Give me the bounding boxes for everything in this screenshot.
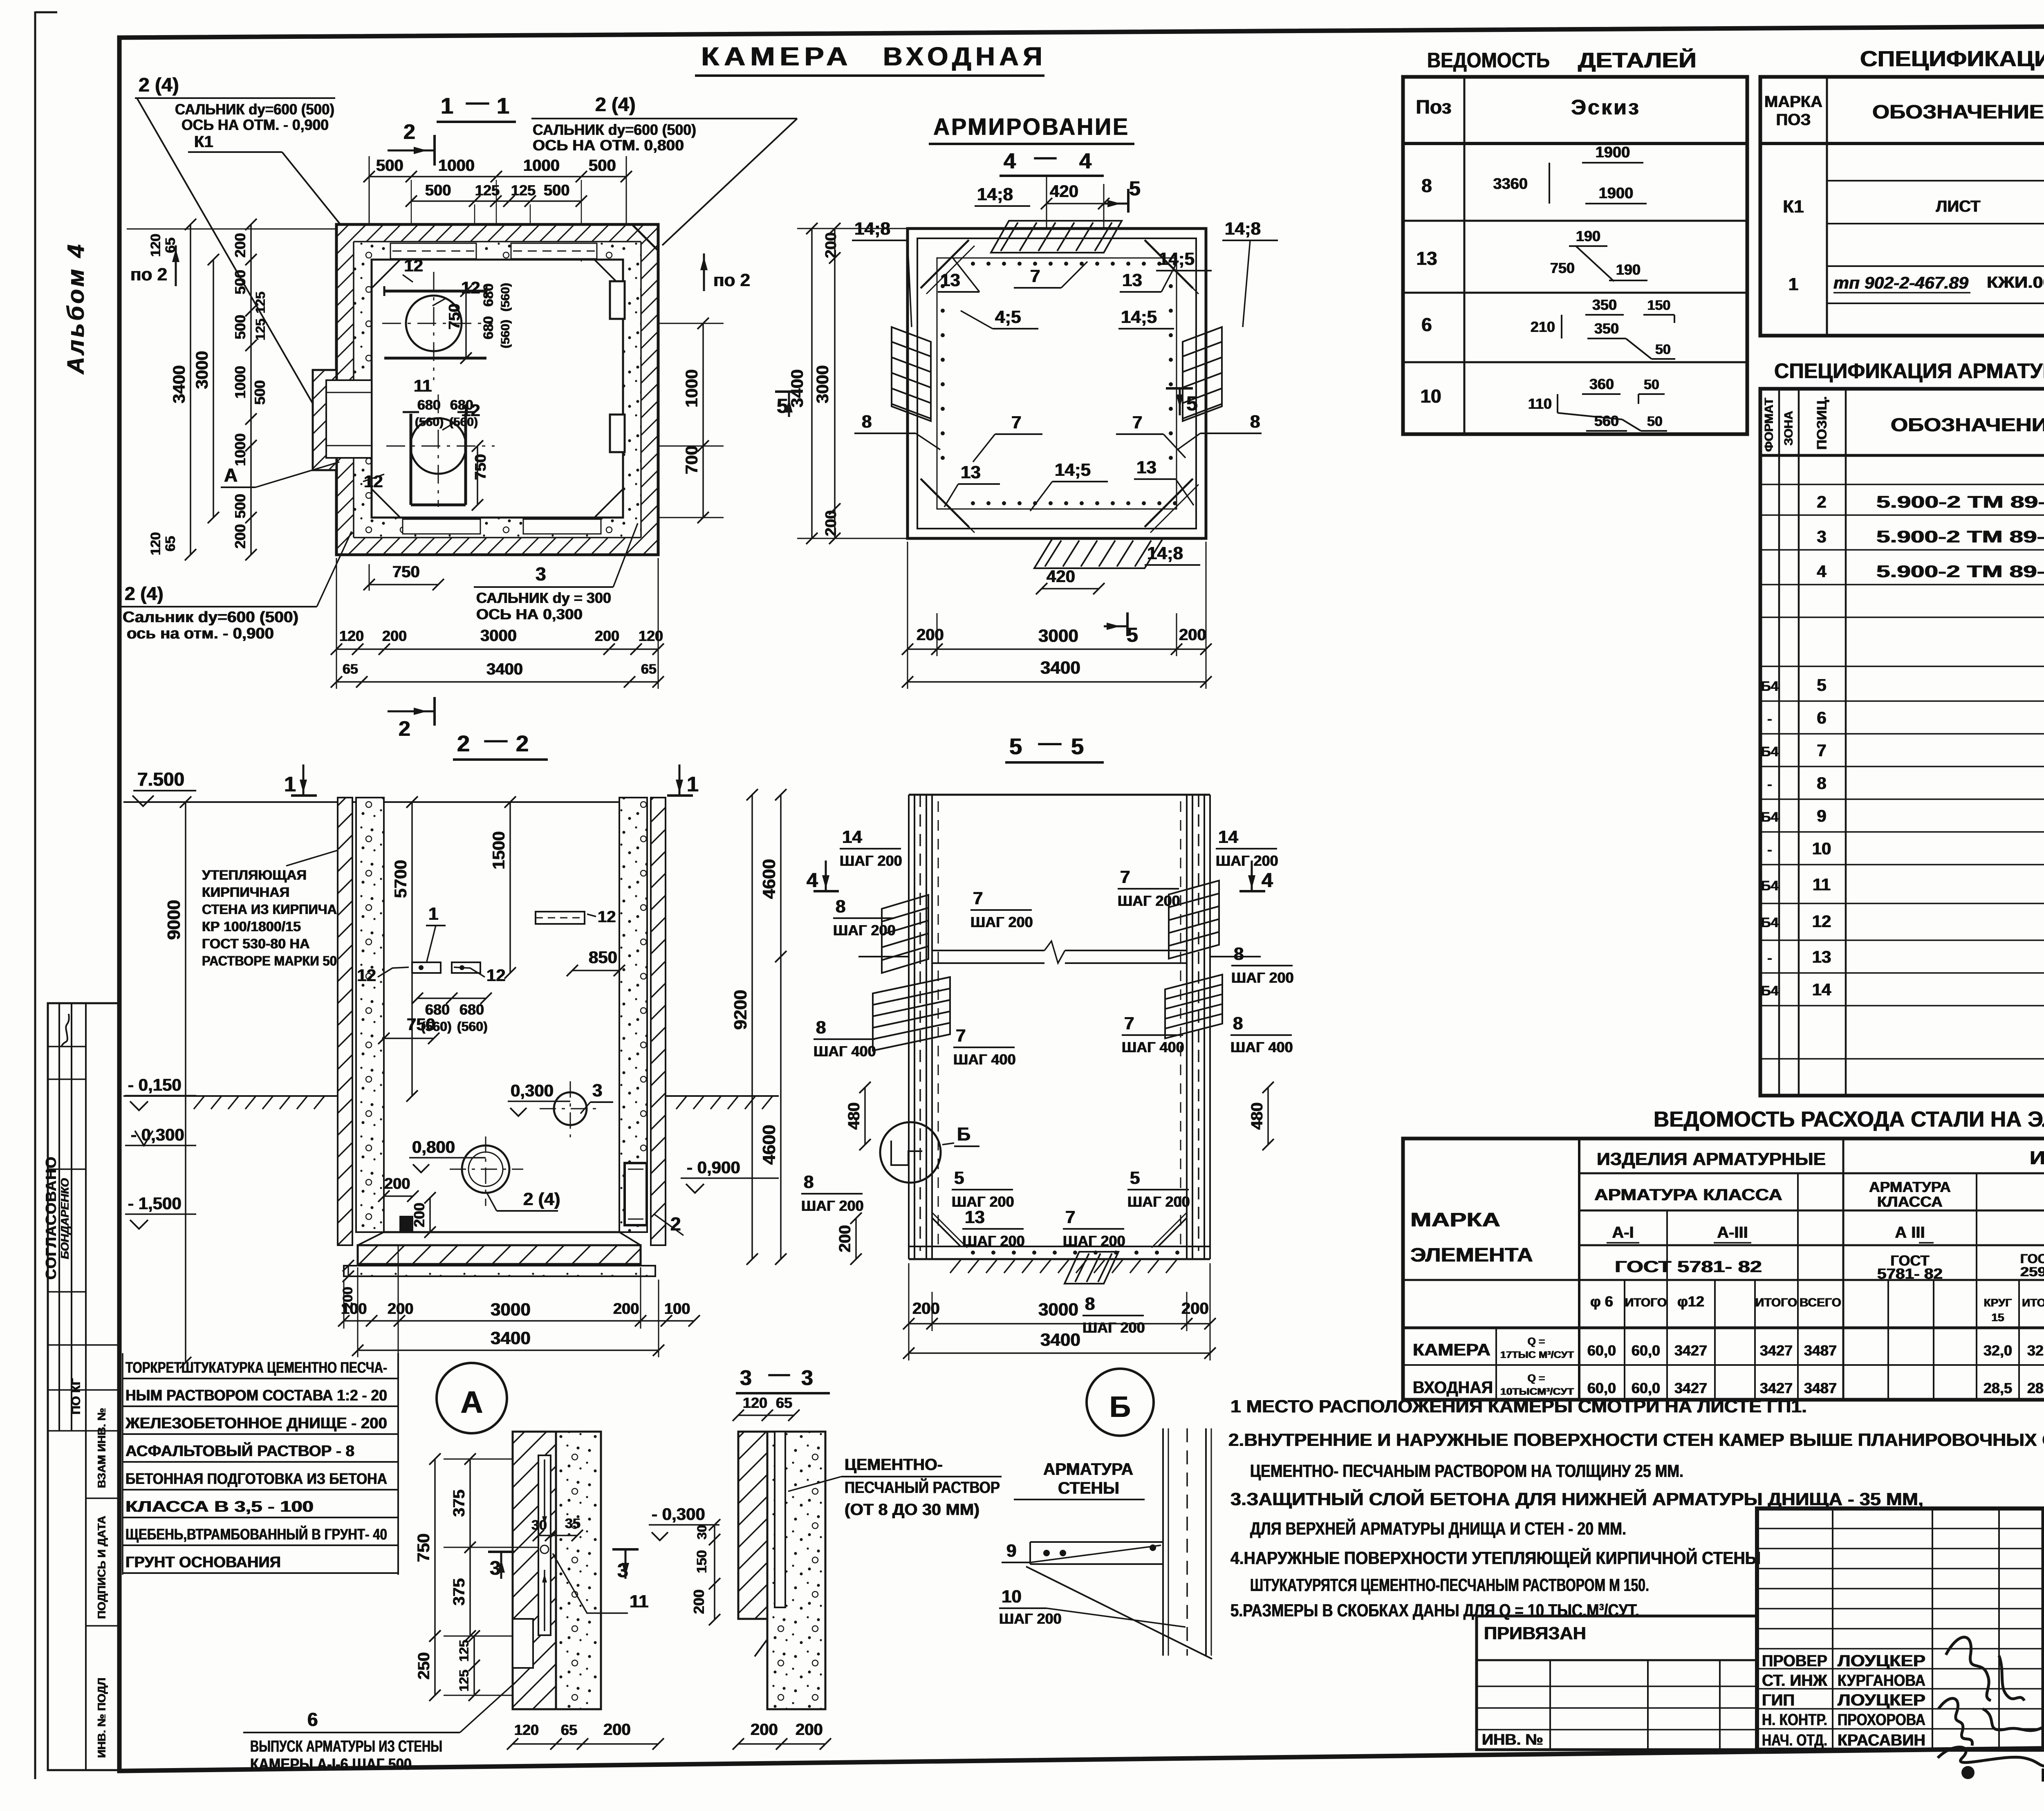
svg-text:6: 6: [1817, 708, 1826, 727]
svg-text:375: 375: [450, 1490, 468, 1517]
svg-text:ЛОУЦКЕР: ЛОУЦКЕР: [1838, 1691, 1925, 1709]
svg-text:13: 13: [961, 462, 981, 482]
svg-text:200: 200: [595, 628, 619, 644]
svg-text:φ12: φ12: [1677, 1293, 1704, 1310]
svg-text:15: 15: [1991, 1311, 2004, 1324]
svg-text:2 (4): 2 (4): [523, 1189, 560, 1209]
svg-text:- 0,300: - 0,300: [652, 1504, 705, 1524]
svg-text:110: 110: [1528, 395, 1552, 412]
svg-text:13: 13: [965, 1207, 985, 1227]
svg-text:УТЕПЛЯЮЩАЯ: УТЕПЛЯЮЩАЯ: [202, 867, 307, 883]
svg-text:ПОДПИСЬ И ДАТА: ПОДПИСЬ И ДАТА: [95, 1516, 108, 1619]
svg-text:10: 10: [1812, 839, 1831, 858]
svg-text:ОБОЗНАЧЕНИЕ: ОБОЗНАЧЕНИЕ: [1872, 101, 2044, 123]
svg-text:ИЗДЕЛИЯ АРМАТУРНЫЕ: ИЗДЕЛИЯ АРМАТУРНЫЕ: [1597, 1149, 1826, 1169]
svg-text:5: 5: [777, 394, 788, 417]
svg-text:11: 11: [1813, 875, 1831, 894]
svg-text:Q =: Q =: [1528, 1372, 1545, 1384]
svg-text:4.НАРУЖНЫЕ ПОВЕРХНОСТИ УТЕПЛ: 4.НАРУЖНЫЕ ПОВЕРХНОСТИ УТЕПЛЯЮЩЕЙ КИРПИЧ…: [1230, 1547, 1761, 1568]
svg-text:Б4: Б4: [1761, 983, 1778, 999]
svg-text:125: 125: [253, 318, 268, 340]
svg-text:φ 6: φ 6: [1590, 1293, 1613, 1310]
svg-text:5700: 5700: [391, 860, 410, 898]
svg-text:1000: 1000: [682, 369, 701, 407]
svg-text:14;8: 14;8: [1147, 543, 1183, 563]
svg-text:КЛАССА: КЛАССА: [1877, 1193, 1943, 1210]
svg-text:30: 30: [695, 1525, 709, 1540]
svg-text:120: 120: [148, 234, 164, 257]
svg-text:0,300: 0,300: [511, 1081, 554, 1100]
svg-text:200: 200: [690, 1589, 707, 1614]
svg-text:1900: 1900: [1596, 144, 1630, 161]
svg-text:Б: Б: [1109, 1391, 1131, 1423]
svg-text:3400: 3400: [1040, 1330, 1080, 1350]
svg-text:ВЗАМ ИНВ. №: ВЗАМ ИНВ. №: [95, 1408, 108, 1488]
svg-text:1900: 1900: [1599, 185, 1634, 202]
svg-text:190: 190: [1616, 261, 1641, 278]
svg-text:60,0: 60,0: [1587, 1380, 1616, 1396]
svg-text:120: 120: [743, 1394, 767, 1411]
svg-text:200: 200: [384, 1175, 410, 1192]
svg-text:125: 125: [253, 291, 268, 313]
svg-text:7: 7: [973, 888, 983, 908]
svg-text:680: 680: [417, 397, 441, 413]
svg-text:750: 750: [446, 304, 463, 329]
svg-text:200: 200: [912, 1300, 940, 1318]
svg-text:13: 13: [940, 270, 960, 290]
svg-text:ЖЕЛЕЗОБЕТОННОЕ ДНИЩЕ - 200: ЖЕЛЕЗОБЕТОННОЕ ДНИЩЕ - 200: [125, 1415, 387, 1432]
svg-text:9000: 9000: [164, 900, 184, 940]
svg-text:1000: 1000: [232, 366, 249, 399]
svg-text:375: 375: [450, 1578, 468, 1606]
svg-text:750: 750: [1550, 260, 1575, 276]
left margin stamp column: [48, 1003, 120, 1770]
detail 3-3 wall strips: [738, 1432, 767, 1619]
svg-text:50: 50: [1655, 342, 1671, 357]
svg-text:тп 902-2-467.89: тп 902-2-467.89: [1833, 273, 1969, 292]
embedded plate detail (pos 1,12) in 2-2: [412, 962, 441, 973]
svg-text:(560): (560): [421, 1019, 452, 1034]
svg-text:ШАГ 200: ШАГ 200: [999, 1610, 1062, 1627]
svg-text:- 1,500: - 1,500: [128, 1194, 182, 1213]
svg-text:11: 11: [630, 1591, 649, 1612]
svg-text:200: 200: [751, 1721, 778, 1739]
svg-text:65: 65: [641, 661, 657, 677]
svg-text:(560): (560): [415, 415, 444, 429]
5-5 bottom slab: [909, 1246, 1210, 1247]
svg-text:1500: 1500: [489, 831, 508, 869]
svg-text:ось на отм. - 0,900: ось на отм. - 0,900: [127, 625, 274, 642]
svg-text:КРАСАВИН: КРАСАВИН: [1838, 1731, 1925, 1749]
Б detail circle on 5-5: [880, 1122, 941, 1183]
svg-text:ЦЕМЕНТНО-: ЦЕМЕНТНО-: [845, 1456, 943, 1474]
hatch flag bottom (pos 14;8): [1034, 539, 1163, 568]
svg-text:5: 5: [1071, 733, 1084, 759]
ground lines and levels: [123, 1095, 338, 1097]
svg-text:60,0: 60,0: [1587, 1342, 1616, 1359]
svg-text:ИНВ. № ПОДЛ: ИНВ. № ПОДЛ: [95, 1678, 108, 1758]
svg-text:8: 8: [1234, 944, 1244, 964]
5-5 wall lines: [908, 795, 910, 1259]
svg-text:Б4: Б4: [1761, 809, 1778, 825]
svg-text:3.ЗАЩИТНЫЙ СЛОЙ БЕТОНА ДЛЯ: 3.ЗАЩИТНЫЙ СЛОЙ БЕТОНА ДЛЯ НИЖНЕЙ АРМАТУ…: [1230, 1488, 1923, 1509]
svg-text:ПРОВЕР: ПРОВЕР: [1762, 1652, 1827, 1670]
hatch flag right (pos 14;8): [1183, 327, 1222, 421]
svg-text:850: 850: [589, 948, 617, 967]
svg-text:7.500: 7.500: [137, 769, 184, 790]
svg-text:САЛЬНИК dy = 300: САЛЬНИК dy = 300: [476, 589, 611, 606]
svg-text:- 0,150: - 0,150: [128, 1075, 182, 1094]
svg-text:ПЕСЧАНЫЙ РАСТВОР: ПЕСЧАНЫЙ РАСТВОР: [845, 1478, 1000, 1497]
svg-text:14;8: 14;8: [977, 184, 1013, 204]
svg-text:5: 5: [954, 1168, 964, 1188]
svg-text:200: 200: [388, 1300, 413, 1318]
svg-text:200: 200: [382, 628, 407, 644]
svg-text:65: 65: [163, 536, 178, 551]
svg-text:9200: 9200: [731, 990, 751, 1030]
svg-text:3: 3: [801, 1366, 813, 1390]
svg-text:3427: 3427: [1674, 1342, 1707, 1359]
svg-text:200: 200: [836, 1225, 854, 1253]
svg-text:(560): (560): [499, 320, 512, 348]
svg-text:Б: Б: [957, 1123, 970, 1145]
svg-text:ОСЬ НА ОТМ. - 0,900: ОСЬ НА ОТМ. - 0,900: [182, 117, 329, 133]
svg-text:200: 200: [1179, 626, 1206, 644]
svg-text:ЭЛЕМЕНТА: ЭЛЕМЕНТА: [1410, 1244, 1533, 1266]
svg-text:ГИП: ГИП: [1762, 1691, 1795, 1709]
svg-text:4: 4: [1004, 149, 1016, 173]
svg-text:-: -: [1767, 777, 1772, 792]
svg-text:ШТУКАТУРЯТСЯ ЦЕМЕНТНО-ПЕСЧАНЫ: ШТУКАТУРЯТСЯ ЦЕМЕНТНО-ПЕСЧАНЫМ РАСТВОРОМ…: [1250, 1575, 1649, 1595]
svg-text:0,800: 0,800: [412, 1137, 455, 1157]
svg-text:5.РАЗМЕРЫ В СКОБКАХ ДАНЫ Д: 5.РАЗМЕРЫ В СКОБКАХ ДАНЫ ДЛЯ Q = 10 ТЫС.…: [1230, 1600, 1639, 1620]
svg-text:Q =: Q =: [1528, 1335, 1545, 1347]
svg-text:60,0: 60,0: [1632, 1380, 1660, 1396]
svg-text:ГОСТ 5781- 82: ГОСТ 5781- 82: [1615, 1258, 1762, 1276]
svg-text:А-I: А-I: [1612, 1224, 1634, 1242]
svg-text:4: 4: [807, 869, 818, 892]
svg-text:35: 35: [565, 1516, 580, 1531]
svg-text:ВХОДНАЯ: ВХОДНАЯ: [1413, 1378, 1493, 1397]
svg-text:8: 8: [1817, 773, 1826, 793]
svg-text:500: 500: [251, 380, 268, 405]
svg-text:КР 100/1800/15: КР 100/1800/15: [202, 919, 301, 935]
svg-text:А III: А III: [1895, 1224, 1925, 1242]
detail Б drawing: [1162, 1428, 1164, 1656]
svg-text:(560): (560): [449, 415, 478, 429]
svg-text:7: 7: [1011, 412, 1021, 433]
svg-text:500: 500: [232, 315, 249, 339]
svg-text:420: 420: [1047, 567, 1075, 586]
svg-text:200: 200: [603, 1721, 631, 1739]
svg-text:—: —: [1034, 145, 1056, 169]
title block stamp: [1757, 1508, 2044, 1750]
svg-text:1: 1: [441, 93, 453, 119]
svg-text:ДЛЯ ВЕРХНЕЙ АРМАТУРЫ ДНИЩА: ДЛЯ ВЕРХНЕЙ АРМАТУРЫ ДНИЩА И СТЕН - 20 М…: [1250, 1518, 1626, 1539]
svg-text:САЛЬНИК dy=600 (500): САЛЬНИК dy=600 (500): [533, 121, 696, 138]
svg-text:ОСЬ НА ОТМ. 0,800: ОСЬ НА ОТМ. 0,800: [533, 137, 684, 154]
svg-text:Н. КОНТР.: Н. КОНТР.: [1762, 1711, 1827, 1729]
svg-text:8: 8: [1250, 412, 1260, 432]
svg-text:12: 12: [461, 278, 480, 297]
svg-text:Б4: Б4: [1761, 878, 1778, 894]
svg-text:350: 350: [1592, 296, 1617, 313]
svg-text:ШАГ 200: ШАГ 200: [970, 914, 1033, 930]
svg-text:1: 1: [428, 904, 438, 924]
svg-text:200: 200: [613, 1300, 639, 1318]
svg-text:СТЕНА ИЗ КИРПИЧА: СТЕНА ИЗ КИРПИЧА: [202, 902, 337, 917]
svg-text:2 (4): 2 (4): [139, 74, 179, 96]
svg-text:ИНВ. №: ИНВ. №: [1482, 1731, 1543, 1748]
svg-text:ЦЕМЕНТНО- ПЕСЧАНЫМ РАСТВОРОМ: ЦЕМЕНТНО- ПЕСЧАНЫМ РАСТВОРОМ НА ТОЛЩИНУ …: [1250, 1461, 1683, 1481]
svg-text:200: 200: [232, 524, 249, 549]
svg-text:по 2: по 2: [130, 264, 167, 285]
svg-text:200: 200: [823, 510, 840, 536]
svg-text:КАМЕРА: КАМЕРА: [1413, 1340, 1490, 1359]
svg-text:3400: 3400: [169, 365, 188, 403]
svg-text:14;5: 14;5: [1121, 307, 1157, 327]
svg-text:3400: 3400: [1040, 658, 1080, 678]
svg-text:500: 500: [376, 157, 403, 175]
svg-text:АСФАЛЬТОВЫЙ РАСТВОР - 8: АСФАЛЬТОВЫЙ РАСТВОР - 8: [126, 1441, 354, 1460]
svg-text:8: 8: [1085, 1294, 1095, 1314]
svg-text:3360: 3360: [1493, 175, 1528, 193]
svg-text:14: 14: [842, 827, 862, 847]
svg-text:8: 8: [862, 412, 872, 432]
svg-text:2: 2: [516, 731, 529, 756]
signatures (squiggles): [1946, 1637, 2024, 1701]
svg-text:500: 500: [425, 182, 451, 199]
svg-text:12: 12: [486, 966, 506, 985]
svg-text:2: 2: [403, 120, 415, 144]
svg-text:(ОТ 8 ДО 30 ММ): (ОТ 8 ДО 30 ММ): [845, 1501, 979, 1519]
svg-text:250: 250: [415, 1652, 433, 1680]
hatch flag top (pos 14;8): [991, 221, 1122, 253]
svg-text:8: 8: [804, 1172, 814, 1192]
svg-text:-: -: [1767, 711, 1772, 727]
svg-text:АРМИРОВАНИЕ: АРМИРОВАНИЕ: [933, 114, 1130, 140]
svg-text:4;5: 4;5: [995, 307, 1021, 327]
svg-text:—: —: [1038, 729, 1061, 755]
svg-text:13: 13: [1812, 947, 1831, 966]
svg-text:8: 8: [816, 1018, 826, 1038]
svg-text:А: А: [224, 464, 238, 486]
сальник пос.2 in right wall: [625, 1163, 647, 1225]
svg-text:12: 12: [1812, 912, 1831, 931]
svg-text:3000: 3000: [813, 365, 832, 403]
svg-text:680: 680: [481, 283, 496, 307]
svg-text:К1: К1: [1783, 197, 1804, 217]
svg-text:12: 12: [364, 472, 383, 491]
svg-text:10: 10: [1420, 386, 1441, 407]
svg-text:ГОСТ 530-80 НА: ГОСТ 530-80 НА: [202, 936, 310, 952]
svg-text:7: 7: [956, 1026, 966, 1046]
svg-text:КРУГ: КРУГ: [1984, 1296, 2012, 1309]
svg-text:Б4: Б4: [1761, 915, 1778, 930]
svg-text:100: 100: [664, 1300, 690, 1318]
svg-text:210: 210: [1531, 318, 1555, 335]
svg-text:ВСЕГО: ВСЕГО: [1800, 1296, 1841, 1309]
dots along bottom slab: [971, 1251, 975, 1255]
svg-text:Поз: Поз: [1416, 96, 1451, 118]
svg-text:ГОСТ: ГОСТ: [2020, 1251, 2044, 1266]
svg-text:150: 150: [694, 1550, 710, 1573]
svg-text:5.900-2 ТМ 89-10: 5.900-2 ТМ 89-10: [1876, 562, 2044, 581]
svg-text:—: —: [484, 726, 507, 752]
svg-text:1000: 1000: [523, 157, 560, 175]
svg-text:8: 8: [1233, 1013, 1243, 1033]
svg-text:3400: 3400: [486, 660, 523, 678]
svg-text:БЕТОННАЯ ПОДГОТОВКА ИЗ БЕТОНА: БЕТОННАЯ ПОДГОТОВКА ИЗ БЕТОНА: [126, 1470, 387, 1488]
svg-text:5: 5: [1129, 177, 1141, 200]
svg-text:7: 7: [1030, 266, 1040, 286]
svg-text:ФОРМАТ: ФОРМАТ: [1762, 398, 1776, 452]
svg-text:3000: 3000: [480, 627, 517, 645]
svg-text:2590-71: 2590-71: [2020, 1264, 2044, 1279]
svg-text:КАМЕРА: КАМЕРА: [701, 42, 852, 71]
detail circle А: [437, 1363, 507, 1433]
svg-text:420: 420: [1050, 182, 1078, 201]
svg-text:3: 3: [592, 1080, 602, 1100]
svg-text:350: 350: [1594, 320, 1619, 337]
embedded angle top right of 2-2: [536, 912, 585, 924]
svg-text:3000: 3000: [1038, 626, 1078, 646]
svg-text:120: 120: [148, 532, 164, 556]
svg-text:17ТЫС М³/СУТ: 17ТЫС М³/СУТ: [1500, 1349, 1574, 1360]
svg-text:Эскиз: Эскиз: [1571, 96, 1641, 119]
left scan edge line: [34, 11, 36, 1779]
svg-text:ОБОЗНАЧЕНИЕ: ОБОЗНАЧЕНИЕ: [1891, 414, 2044, 435]
svg-text:3427: 3427: [1760, 1342, 1793, 1359]
pipe circle 1 (сальник верхний): [406, 296, 462, 351]
svg-text:360: 360: [1589, 376, 1614, 392]
svg-text:—: —: [466, 89, 489, 114]
svg-text:4: 4: [1262, 869, 1273, 892]
svg-text:Б4: Б4: [1761, 679, 1778, 694]
svg-text:КЖИ.00.100: КЖИ.00.100: [1987, 273, 2044, 291]
svg-text:9: 9: [1817, 806, 1826, 825]
svg-text:ЛИСТ: ЛИСТ: [1936, 197, 1980, 215]
svg-text:ШАГ 200: ШАГ 200: [840, 852, 902, 869]
svg-text:680: 680: [450, 397, 473, 413]
svg-text:7: 7: [1817, 741, 1826, 760]
svg-text:9: 9: [1006, 1541, 1016, 1561]
2-2 bottom slab: [384, 1231, 619, 1233]
svg-text:ШАГ 200: ШАГ 200: [962, 1233, 1025, 1249]
svg-text:КОПИРОВАЛ ЕРЕМЧЕНКО: КОПИРОВАЛ ЕРЕМЧЕНКО: [2041, 1764, 2044, 1786]
svg-text:МАРКА: МАРКА: [1410, 1209, 1500, 1231]
svg-text:5: 5: [1130, 1168, 1140, 1188]
wall band of chamber 1-1: [336, 224, 658, 242]
svg-text:ИЗДЕЛИЯ ЗАКЛАДНЫЕ: ИЗДЕЛИЯ ЗАКЛАДНЫЕ: [2030, 1147, 2044, 1168]
svg-text:ТОРКРЕТШТУКАТУРКА ЦЕМЕНТНО ПЕС: ТОРКРЕТШТУКАТУРКА ЦЕМЕНТНО ПЕСЧА-: [126, 1359, 387, 1376]
svg-text:3400: 3400: [491, 1328, 531, 1348]
svg-text:4600: 4600: [759, 1125, 779, 1165]
svg-text:7: 7: [1120, 867, 1130, 887]
svg-text:ШАГ 200: ШАГ 200: [801, 1197, 864, 1214]
svg-text:750: 750: [392, 563, 420, 581]
svg-text:560: 560: [1594, 412, 1619, 429]
pipe circle 2 (сальник нижний): [410, 418, 466, 474]
svg-text:5: 5: [1186, 392, 1198, 415]
svg-text:4600: 4600: [759, 859, 779, 899]
svg-text:5.900-2 ТМ 89-07: 5.900-2 ТМ 89-07: [1876, 527, 2044, 546]
svg-text:12: 12: [357, 966, 376, 985]
svg-text:125: 125: [457, 1640, 471, 1661]
svg-text:120: 120: [639, 628, 663, 644]
svg-text:14: 14: [1218, 827, 1238, 847]
svg-text:3487: 3487: [1804, 1342, 1837, 1359]
svg-text:14;5: 14;5: [1159, 249, 1195, 269]
wall sleeve opening (left, гильза): [313, 370, 336, 470]
svg-text:5: 5: [1009, 733, 1022, 759]
svg-text:13: 13: [1122, 270, 1142, 290]
svg-text:480: 480: [845, 1103, 863, 1130]
svg-text:5: 5: [1817, 675, 1826, 695]
svg-text:10ТЫСМ³/СУТ: 10ТЫСМ³/СУТ: [1500, 1386, 1574, 1397]
svg-text:7: 7: [1124, 1013, 1134, 1033]
svg-text:3: 3: [1817, 527, 1826, 546]
svg-text:200: 200: [823, 232, 840, 258]
svg-text:ШАГ 400: ШАГ 400: [814, 1043, 876, 1060]
svg-text:КИРПИЧНАЯ: КИРПИЧНАЯ: [202, 885, 289, 900]
svg-text:120: 120: [339, 628, 364, 644]
svg-text:7: 7: [1065, 1207, 1075, 1227]
svg-text:6: 6: [307, 1709, 318, 1730]
svg-text:120: 120: [514, 1721, 539, 1738]
svg-text:2: 2: [399, 717, 410, 741]
svg-text:—: —: [769, 1362, 790, 1386]
2-2 walls: [338, 798, 352, 1245]
svg-text:ЩЕБЕНЬ,ВТРАМБОВАННЫЙ В ГРУНТ-: ЩЕБЕНЬ,ВТРАМБОВАННЫЙ В ГРУНТ- 40: [126, 1525, 387, 1543]
svg-text:ШАГ 200: ШАГ 200: [1063, 1233, 1125, 1249]
svg-text:БОНДАРЕНКО: БОНДАРЕНКО: [58, 1178, 71, 1259]
detail circle Б: [1087, 1369, 1154, 1436]
svg-text:2.ВНУТРЕННИЕ И НАРУЖНЫЕ ПОВ: 2.ВНУТРЕННИЕ И НАРУЖНЫЕ ПОВЕРХНОСТИ СТЕН…: [1228, 1430, 2044, 1450]
svg-text:12: 12: [598, 908, 616, 926]
svg-text:ИТОГО: ИТОГО: [1755, 1296, 1797, 1309]
svg-text:500: 500: [232, 270, 249, 294]
svg-text:200: 200: [917, 626, 944, 644]
svg-text:3427: 3427: [1674, 1380, 1707, 1396]
svg-text:65: 65: [776, 1394, 792, 1411]
svg-text:3: 3: [740, 1366, 752, 1390]
svg-text:750: 750: [472, 454, 489, 480]
svg-text:(560): (560): [457, 1019, 488, 1034]
svg-text:СОГЛАСОВАНО: СОГЛАСОВАНО: [43, 1156, 59, 1280]
svg-text:ПОЗ: ПОЗ: [1776, 111, 1811, 129]
svg-text:ШАГ 400: ШАГ 400: [1122, 1039, 1184, 1056]
svg-text:28,5: 28,5: [2027, 1380, 2044, 1396]
svg-text:МАРКА: МАРКА: [1764, 93, 1822, 111]
svg-text:480: 480: [1248, 1103, 1266, 1130]
svg-text:КУРГАНОВА: КУРГАНОВА: [1838, 1672, 1925, 1690]
svg-text:ПОЗИЦ.: ПОЗИЦ.: [1814, 396, 1830, 450]
svg-text:3000: 3000: [1038, 1300, 1078, 1320]
svg-text:СПЕЦИФИКАЦИЯ АРМАТУРНЫХ ИЗДЕ: СПЕЦИФИКАЦИЯ АРМАТУРНЫХ ИЗДЕЛИЙ ВХОДНОЙ …: [1774, 359, 2044, 383]
svg-text:3000: 3000: [491, 1300, 531, 1320]
svg-text:10: 10: [1002, 1587, 1022, 1607]
svg-text:1: 1: [284, 773, 296, 796]
svg-text:НАЧ. ОТД.: НАЧ. ОТД.: [1762, 1731, 1827, 1749]
svg-text:3000: 3000: [192, 351, 211, 389]
svg-text:АРМАТУРА: АРМАТУРА: [1043, 1459, 1133, 1479]
svg-text:Б4: Б4: [1761, 744, 1778, 760]
svg-text:КЛАССА В 3,5 - 100: КЛАССА В 3,5 - 100: [126, 1498, 314, 1515]
svg-text:ШАГ 200: ШАГ 200: [1118, 892, 1180, 909]
привязан box: [1477, 1616, 1757, 1750]
embedded parts right wall: [610, 281, 625, 319]
